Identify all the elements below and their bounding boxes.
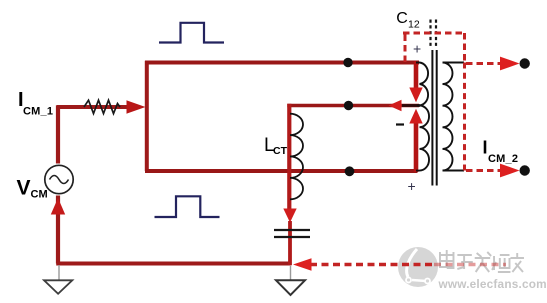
ground GND2 stem (290, 266, 292, 280)
arrow: ICM1 into loop (127, 100, 146, 113)
wire: LCT branch vertical x=289.3 (287, 104, 291, 211)
node J3 (bottom bus) (345, 166, 355, 176)
dashed wire: ICM2 top output y=63.5 (466, 62, 501, 65)
capacitor (LCT to ground, unlabeled) (274, 230, 310, 237)
wire: LCT branch below cap to ground bus (288, 221, 292, 265)
dashed wire: ground return faded tail (434, 263, 506, 266)
svg-text:+: + (413, 41, 421, 57)
wire: ground bottom horizontal y=263.5 (56, 262, 291, 266)
svg-text:C: C (396, 10, 408, 27)
svg-text:I: I (483, 138, 488, 158)
pulse symbol P2 (bottom) (155, 196, 220, 217)
wire: top loop horizontal y=62.5 (145, 61, 419, 65)
svg-text:CM: CM (31, 189, 48, 201)
resistor R (zigzag, unlabeled) (84, 100, 120, 113)
transformer T1 core (432, 50, 436, 186)
node J2 (tap bus) (344, 101, 353, 110)
wire: primary top lead vertical x=416 (414, 61, 419, 90)
svg-text:12: 12 (408, 19, 420, 31)
ground GND1 stem (58, 265, 60, 280)
arrow: tap current out left (389, 100, 402, 112)
label minus tap (396, 123, 404, 125)
source VCM sine (50, 176, 69, 184)
node J1 (top bus) (343, 58, 352, 67)
arrow: primary current up to tap (409, 109, 422, 124)
wire: VCM top lead vertical x=58 (56, 105, 60, 163)
wire: primary bottom lead vertical x=416 (414, 121, 419, 172)
wire: middle tap black overlay near transformer (402, 104, 420, 107)
pulse symbol P1 (top) (159, 23, 224, 43)
terminal T-top (520, 58, 530, 68)
svg-text:www.elecfans.com: www.elecfans.com (438, 277, 547, 291)
arrow: ICM2 bottom output (500, 164, 520, 178)
svg-text:CM_2: CM_2 (488, 153, 518, 165)
wire: VCM bottom lead vertical x=58 (56, 196, 60, 264)
svg-text:CT: CT (273, 145, 288, 157)
wire: middle tap horizontal y=105.5 (287, 104, 419, 108)
watermark chinese text (440, 250, 524, 272)
dashed wire: C12 right vertical down to secondary top (463, 33, 466, 62)
dashed wire: C12 left vertical (404, 33, 407, 62)
arrow: ground return pointing left (293, 258, 312, 271)
arrow: VCM current up (51, 198, 65, 215)
ground GND2 (276, 280, 305, 295)
svg-text:+: + (408, 178, 416, 194)
ground GND1 (44, 280, 72, 294)
svg-text:V: V (17, 177, 31, 200)
arrow: ICM2 top output (500, 57, 520, 71)
arrow: primary current down to tap (409, 88, 422, 103)
dashed wire: ICM2 bottom output y=170.5 (466, 169, 501, 172)
dashed wire: ground return y=264.5 (310, 263, 432, 266)
terminal T-bottom (520, 165, 530, 175)
dashed wire: C12 top horizontal y=33 (403, 32, 465, 35)
watermark logo circle (398, 247, 438, 287)
transformer T1 primary winding (416, 63, 429, 171)
transformer T1 primary tap lead (417, 105, 421, 107)
transformer T1 secondary winding (443, 63, 465, 171)
arrow: LCT current down (283, 209, 296, 223)
svg-text:CM_1: CM_1 (23, 106, 53, 118)
inductor LCT winding (290, 114, 303, 200)
source VCM circle (45, 165, 73, 193)
wire: bottom loop horizontal y=171 (145, 169, 418, 173)
capacitor C12 plates (dashed) (431, 20, 437, 47)
wire: ICM1 input horizontal y=107 (57, 105, 128, 109)
dashed wire: ICM2 vertical along secondary x=464.5 (463, 63, 466, 172)
wire: left loop vertical x=146.8 (145, 61, 149, 171)
